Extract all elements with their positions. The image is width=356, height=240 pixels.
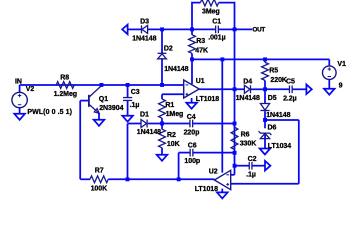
svg-text:2N3904: 2N3904	[99, 105, 123, 112]
node	[100, 83, 104, 87]
wire	[161, 29, 163, 53]
diode D3	[142, 25, 148, 33]
voltage source V2	[12, 92, 27, 107]
node	[126, 83, 130, 87]
resistor R2	[159, 129, 166, 148]
wire	[161, 94, 163, 99]
capacitor C1	[215, 26, 217, 34]
wire	[19, 85, 21, 93]
wire	[193, 123, 235, 125]
node	[160, 122, 164, 126]
wire	[192, 58, 329, 60]
svg-text:1N4148: 1N4148	[164, 66, 188, 73]
svg-text:PWL(0 0 .5 1): PWL(0 0 .5 1)	[27, 109, 72, 116]
svg-text:D6: D6	[268, 124, 277, 131]
wire	[161, 59, 163, 85]
capacitor C2	[248, 162, 250, 170]
svg-text:220p: 220p	[184, 129, 200, 136]
wire	[79, 101, 81, 180]
wire	[265, 88, 289, 90]
resistor R1	[159, 99, 166, 118]
op-amp U2	[214, 170, 230, 189]
svg-text:1N4148: 1N4148	[137, 129, 161, 136]
node	[233, 87, 237, 91]
wire	[265, 119, 299, 121]
wire	[264, 89, 266, 103]
svg-text:LT1034: LT1034	[268, 143, 291, 150]
arrow	[122, 25, 127, 35]
wire	[199, 88, 244, 90]
wire	[250, 88, 265, 90]
node	[190, 57, 194, 61]
node	[233, 164, 237, 168]
voltage source V1	[323, 66, 337, 80]
ground	[157, 155, 168, 161]
resistor R5	[262, 62, 269, 80]
svg-text:IN: IN	[15, 79, 22, 86]
wire	[19, 108, 21, 114]
transistor Q1	[88, 95, 90, 107]
wire	[192, 28, 216, 30]
wire	[264, 111, 266, 120]
resistor R8	[56, 82, 74, 89]
wire	[328, 59, 330, 66]
wire	[179, 152, 190, 154]
node	[233, 151, 237, 155]
capacitor C4	[189, 120, 191, 128]
svg-text:OUT: OUT	[252, 27, 265, 34]
node	[220, 57, 224, 61]
svg-text:D2: D2	[164, 46, 173, 53]
ground	[14, 114, 25, 120]
svg-text:R1: R1	[165, 102, 174, 109]
svg-text:C6: C6	[188, 143, 197, 150]
svg-text:3Meg: 3Meg	[202, 9, 220, 16]
svg-text:C5: C5	[286, 79, 295, 86]
wire	[127, 85, 129, 97]
diode D1	[141, 120, 147, 128]
wire	[231, 183, 299, 185]
resistor 3Meg	[200, 0, 218, 6]
wire	[191, 53, 193, 59]
wire	[264, 134, 266, 149]
svg-text:1Meg: 1Meg	[166, 111, 184, 118]
wire	[191, 29, 193, 34]
svg-text:1N4148: 1N4148	[266, 112, 290, 119]
svg-text:9: 9	[339, 83, 343, 90]
wire	[80, 178, 90, 180]
wire	[264, 120, 266, 128]
ground	[217, 192, 228, 198]
resistor R3	[189, 35, 196, 54]
capacitor C6	[189, 149, 191, 157]
wire	[161, 124, 163, 130]
svg-text:R2: R2	[167, 132, 176, 139]
wire	[234, 124, 236, 128]
svg-text:R5: R5	[269, 67, 278, 74]
wire	[231, 174, 235, 176]
svg-text:D1: D1	[140, 112, 149, 119]
svg-text:R3: R3	[196, 38, 205, 45]
wire	[221, 59, 223, 172]
wire	[148, 123, 162, 125]
svg-text:220K: 220K	[270, 77, 287, 84]
node	[263, 118, 267, 122]
resistor R6	[231, 127, 238, 149]
wire	[161, 118, 163, 123]
svg-text:1.2Meg: 1.2Meg	[54, 91, 77, 98]
diode D5	[260, 104, 269, 111]
svg-text:1N4148: 1N4148	[236, 95, 260, 102]
wire	[127, 124, 129, 180]
wire	[80, 100, 89, 102]
svg-text:U1: U1	[196, 78, 205, 85]
node	[126, 177, 130, 181]
svg-text:330K: 330K	[240, 141, 257, 148]
wire	[108, 178, 214, 180]
svg-text:C4: C4	[187, 114, 196, 121]
wire	[235, 28, 253, 30]
svg-text:100p: 100p	[184, 158, 200, 165]
wire	[147, 28, 192, 30]
wire	[128, 123, 142, 125]
wire	[328, 79, 330, 88]
svg-text:C3: C3	[131, 89, 140, 96]
svg-text:1N4148: 1N4148	[132, 36, 156, 43]
node	[160, 27, 164, 31]
wire	[191, 98, 193, 103]
diode D2	[158, 54, 167, 59]
wire	[234, 29, 236, 174]
wire	[162, 123, 190, 125]
ground	[186, 103, 197, 109]
wire	[191, 59, 193, 84]
wire	[298, 120, 300, 184]
svg-text:Q1: Q1	[99, 96, 108, 103]
arrow	[306, 85, 311, 95]
resistor R7	[90, 176, 108, 183]
op-amp U1	[184, 80, 200, 98]
wire	[161, 148, 163, 155]
diode D6 LT1034	[260, 133, 269, 138]
wire	[264, 80, 266, 89]
arrow	[265, 161, 270, 171]
svg-text:V1: V1	[337, 61, 346, 68]
svg-text:C1: C1	[212, 19, 221, 26]
wire	[253, 165, 266, 167]
svg-text:D4: D4	[243, 79, 252, 86]
wire	[178, 153, 180, 180]
wire	[162, 93, 184, 95]
wire	[127, 101, 129, 116]
wire	[264, 59, 266, 62]
node	[263, 87, 267, 91]
node	[233, 122, 237, 126]
svg-text:U2: U2	[209, 169, 218, 176]
wire	[20, 84, 184, 86]
svg-text:10K: 10K	[167, 141, 180, 148]
svg-text:R7: R7	[95, 168, 104, 175]
svg-text:2.2µ: 2.2µ	[283, 95, 297, 102]
ground	[260, 149, 271, 155]
svg-text:V2: V2	[26, 86, 35, 93]
svg-text:LT1018: LT1018	[195, 186, 218, 193]
node	[160, 83, 164, 87]
svg-text:D3: D3	[140, 19, 149, 26]
ground	[324, 89, 335, 95]
node	[233, 27, 237, 31]
capacitor C5	[288, 85, 290, 93]
wire	[235, 165, 250, 167]
wire	[128, 28, 142, 30]
ground	[122, 116, 133, 122]
svg-text:.1µ: .1µ	[246, 171, 256, 178]
wire	[192, 3, 235, 30]
svg-text:C2: C2	[248, 156, 257, 163]
wire	[221, 189, 223, 193]
wire	[98, 113, 100, 120]
svg-text:LT1018: LT1018	[196, 96, 219, 103]
svg-text:47K: 47K	[195, 47, 208, 54]
svg-text:D5: D5	[268, 95, 277, 102]
wire	[292, 88, 306, 90]
capacitor C3	[123, 97, 132, 99]
node	[190, 27, 194, 31]
node	[177, 177, 181, 181]
svg-text:.001µ: .001µ	[208, 35, 225, 42]
node	[263, 57, 267, 61]
svg-text:R6: R6	[241, 131, 250, 138]
svg-text:R8: R8	[60, 75, 69, 82]
svg-text:100K: 100K	[91, 186, 108, 193]
ground	[94, 120, 105, 126]
wire	[219, 28, 235, 30]
wire	[193, 152, 234, 154]
svg-text:.1µ: .1µ	[130, 102, 140, 109]
diode D4	[244, 85, 250, 93]
